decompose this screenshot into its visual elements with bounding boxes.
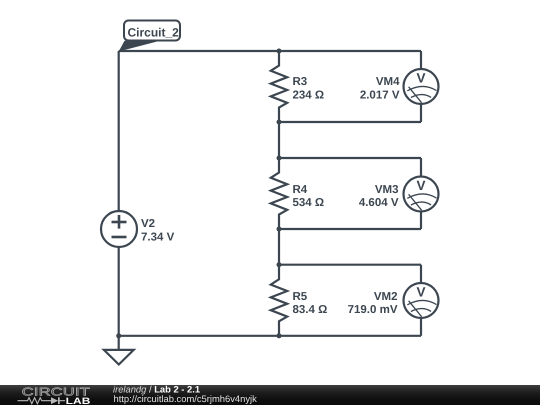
footer bar <box>0 385 540 406</box>
resistor R4 <box>271 158 287 229</box>
junction node ground <box>116 333 121 338</box>
svg-text:V: V <box>416 178 425 193</box>
junction node top middle <box>277 49 282 54</box>
voltmeter VM4 <box>404 51 439 122</box>
CircuitLab logo wordmark LAB <box>66 395 91 405</box>
svg-text:2.017 V: 2.017 V <box>360 90 400 102</box>
svg-text:7.34 V: 7.34 V <box>141 232 175 244</box>
svg-text:V2: V2 <box>141 218 155 230</box>
junction node loop2 top <box>277 156 282 161</box>
svg-text:234 Ω: 234 Ω <box>293 90 325 102</box>
svg-text:4.604 V: 4.604 V <box>359 197 399 209</box>
CircuitLab logo schematic motif: wire, resistor, diode <box>18 397 66 403</box>
voltage source V2 <box>101 211 137 247</box>
svg-text:http://circuitlab.com/c5rjmh6v: http://circuitlab.com/c5rjmh6v4nyjk <box>114 392 258 403</box>
svg-text:VM3: VM3 <box>375 184 399 196</box>
wire loop2 top horizontal <box>279 157 421 159</box>
svg-text:V: V <box>416 285 425 300</box>
wire middle rail between R4 and R5 <box>278 229 280 265</box>
resistor R5 <box>271 265 287 336</box>
svg-text:VM2: VM2 <box>374 291 398 303</box>
junction node bottom middle <box>277 333 282 338</box>
node flag Circuit_2 <box>119 21 180 52</box>
CircuitLab logo wordmark CIRCUIT <box>22 386 90 398</box>
svg-text:R4: R4 <box>293 184 308 196</box>
wire bottom horizontal net <box>119 335 421 337</box>
svg-text:VM4: VM4 <box>376 76 400 88</box>
ground <box>104 336 134 365</box>
wire loop3 top horizontal <box>279 264 421 266</box>
voltmeter VM2 <box>404 265 439 336</box>
svg-text:R3: R3 <box>293 76 308 88</box>
wire loop1 bottom horizontal <box>279 121 421 123</box>
junction node loop1 bottom <box>277 120 282 125</box>
wire top horizontal net <box>119 50 421 52</box>
svg-text:Circuit_2: Circuit_2 <box>128 26 180 40</box>
voltmeter VM3 <box>404 158 439 229</box>
svg-text:83.4 Ω: 83.4 Ω <box>293 304 328 316</box>
resistor R3 <box>271 51 287 122</box>
junction node loop2 bottom <box>277 227 282 232</box>
svg-text:R5: R5 <box>293 291 308 303</box>
wire middle rail between R3 and R4 <box>278 122 280 158</box>
svg-text:LAB: LAB <box>66 395 91 405</box>
wire left rail lower segment <box>118 247 120 336</box>
svg-text:719.0 mV: 719.0 mV <box>348 304 398 316</box>
svg-text:534 Ω: 534 Ω <box>293 197 325 209</box>
svg-text:V: V <box>416 71 425 86</box>
wire loop2 bottom horizontal <box>279 228 421 230</box>
wire left rail upper segment <box>118 51 120 211</box>
junction node loop3 top <box>277 262 282 267</box>
